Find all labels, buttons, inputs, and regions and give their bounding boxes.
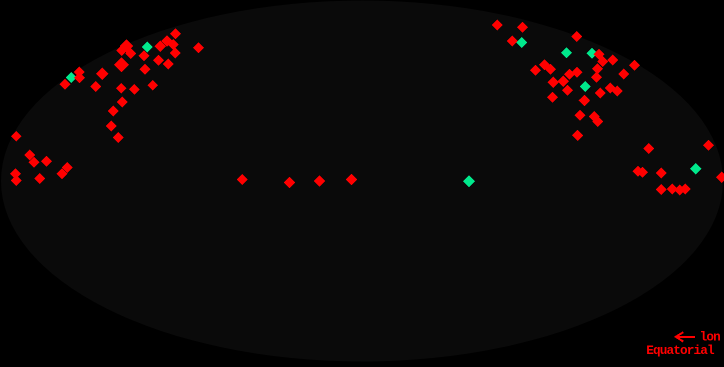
marker red TL16 [168, 39, 179, 50]
marker red TR31 [589, 111, 600, 122]
marker red TL18 [170, 48, 181, 59]
marker red TL7 big [114, 57, 129, 72]
marker red RE1 [633, 166, 644, 177]
marker red EQ2 [284, 177, 295, 188]
marker red TR17 [557, 75, 569, 87]
marker red TR1 [492, 20, 503, 31]
marker red L6 [11, 175, 22, 186]
marker red TR29 [572, 130, 583, 141]
marker red TL12 [138, 50, 149, 61]
svg-text:Equatorial: Equatorial [646, 343, 715, 358]
marker red TL22 [116, 83, 127, 94]
marker green TR20 green [580, 81, 591, 92]
marker red TL19 [153, 55, 164, 66]
marker red RE3 [656, 168, 667, 179]
marker red TL10 [125, 48, 136, 59]
marker red TR32 [592, 116, 603, 127]
marker red TL24 [117, 97, 128, 108]
marker red TR2 [517, 22, 528, 33]
marker red TR12 [597, 56, 608, 67]
marker red TR7 [545, 64, 556, 75]
marker red TR27 [618, 69, 629, 80]
marker red L4 [41, 156, 52, 167]
marker red TL20 [163, 59, 174, 70]
marker red RE11 [680, 184, 691, 195]
marker red TL6 [96, 68, 109, 81]
marker red TL4 [74, 72, 85, 83]
marker green EQ5 green [463, 175, 475, 187]
marker red EQ1 [237, 174, 248, 185]
marker red TR6 [539, 59, 550, 70]
marker red RE9 [667, 184, 678, 195]
marker red TR22 [595, 88, 606, 99]
lon arrow [676, 332, 695, 341]
marker red TR23 [605, 83, 616, 94]
marker red TR8 [571, 31, 582, 42]
marker red TL27 [113, 132, 124, 143]
marker green TR9 green [561, 47, 572, 58]
marker red TR28 [629, 60, 640, 71]
marker red RE8 [656, 184, 667, 195]
marker red TL8 big [120, 40, 133, 54]
marker red TR3 [507, 36, 518, 47]
marker green TL2 green [66, 72, 77, 83]
marker red TR14 [564, 69, 575, 80]
marker red TR15 [571, 67, 582, 78]
marker red TR5 [530, 65, 541, 76]
marker red L5 [10, 168, 21, 179]
marker red TR30 [575, 110, 586, 121]
marker red TR16 [548, 77, 560, 89]
marker red RE2 [637, 167, 648, 178]
marker red TL17 [170, 28, 181, 39]
marker red EQ4 [346, 174, 357, 185]
marker red TR21 [579, 95, 591, 107]
marker red TR18 [562, 85, 573, 96]
marker red TR24 [612, 86, 623, 97]
marker red TR26 [591, 72, 602, 83]
marker red TL14 [155, 40, 167, 52]
marker red TL15 [161, 35, 173, 47]
marker red L2 [24, 150, 35, 161]
marker green TR4 green [516, 37, 527, 48]
marker red TL21 [148, 80, 159, 91]
marker red TR25 [592, 63, 603, 74]
marker red RE10 [674, 185, 685, 196]
marker red RE5 [716, 172, 724, 183]
marker red L9 [62, 162, 73, 173]
marker red TL28 lone [193, 42, 204, 53]
marker red L1 [11, 131, 22, 142]
marker red EQ3 [314, 175, 325, 186]
marker green RE4 green [690, 163, 702, 175]
marker red L7 [34, 173, 45, 184]
marker red TL3 [74, 67, 85, 78]
marker red TR11 [593, 49, 604, 60]
marker red RE7 [703, 140, 714, 151]
marker red TL9 [116, 45, 127, 56]
marker red TL5 [90, 81, 101, 92]
marker green TR10 green [587, 48, 598, 59]
marker red TL25 [108, 106, 119, 117]
marker red TR19 [547, 92, 558, 103]
marker red TL13 [140, 64, 151, 75]
marker red L3 [29, 157, 40, 168]
marker green TL11 green [142, 42, 153, 53]
marker red TR13 [607, 55, 618, 66]
marker red TL26 [106, 121, 117, 132]
marker red TL1 [60, 79, 71, 90]
marker red L8 [56, 168, 67, 179]
marker red TL23 [129, 84, 140, 95]
marker red RE6 [643, 143, 654, 154]
